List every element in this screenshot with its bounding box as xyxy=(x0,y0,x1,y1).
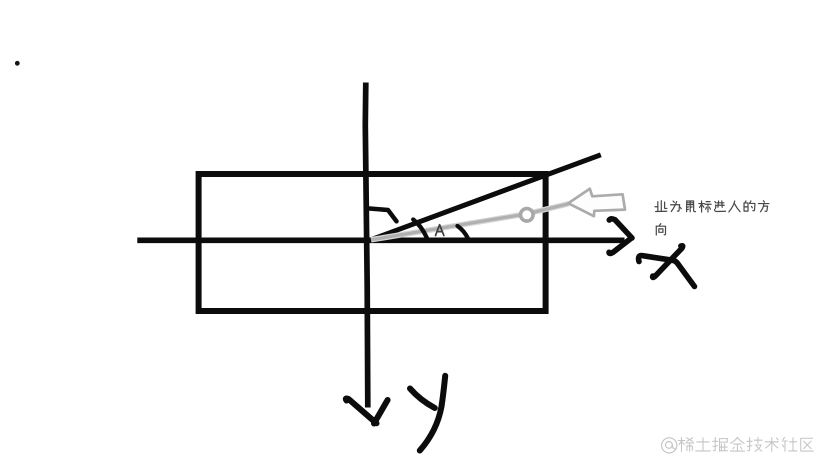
angle A arc xyxy=(413,220,427,238)
label line 2 xyxy=(656,224,665,235)
x-axis arrowhead xyxy=(609,219,632,254)
small angle tick xyxy=(458,226,469,239)
stray pen dot xyxy=(15,61,20,66)
handwritten letter x xyxy=(639,246,695,287)
circle marker on gray line xyxy=(521,209,534,222)
diagonal line through origin xyxy=(368,155,601,241)
label A xyxy=(436,225,444,236)
y-axis shaft xyxy=(365,83,368,408)
x-axis shaft xyxy=(137,237,624,243)
watermark @juejin community xyxy=(662,438,677,453)
y-axis arrowhead xyxy=(346,399,388,424)
angle mark near y-axis xyxy=(370,209,397,222)
handwritten letter y xyxy=(410,376,445,451)
label: this is the direction the mouse enters (line 1) xyxy=(655,201,667,212)
gray hollow block arrow pointing left xyxy=(568,189,625,217)
rectangle box xyxy=(199,174,546,311)
gray mouse path line xyxy=(371,204,569,240)
